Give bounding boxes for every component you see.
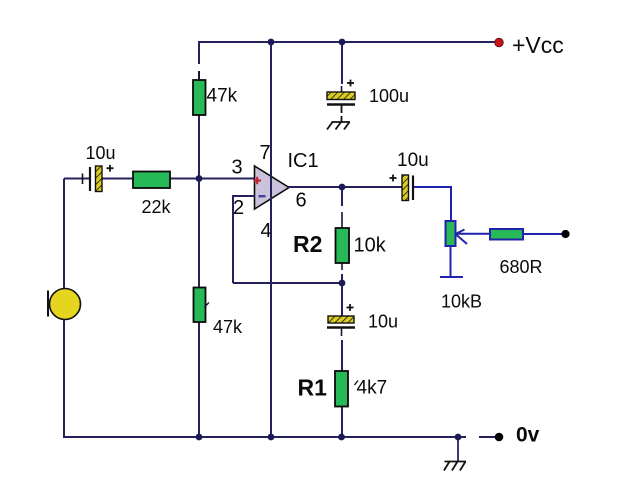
wire op-amp output row [288, 186, 402, 188]
terminal 0v black dot [495, 433, 504, 442]
wire input row left of cap [64, 178, 90, 180]
node junction top rail 100u [339, 39, 346, 46]
svg-text:47k: 47k [207, 86, 238, 107]
svg-text:4: 4 [261, 220, 272, 242]
capacitor C-out plus mark [390, 175, 397, 182]
ground below 100u hatched symbol [327, 122, 350, 130]
capacitor C-in 10u lead tick [82, 174, 84, 185]
wire R2 branch lower lead [341, 263, 343, 270]
microphone front bar [47, 291, 49, 317]
resistor R1 4k7 [335, 371, 348, 407]
op-amp U1 body [255, 166, 290, 209]
wire gap above 47k top [198, 64, 201, 71]
svg-text:680R: 680R [500, 257, 543, 277]
svg-text:10k: 10k [354, 235, 387, 257]
node junction bottom rail 47k [196, 434, 203, 441]
wire top +Vcc rail [199, 41, 496, 43]
capacitor 100u plus mark [347, 80, 354, 87]
svg-text:IC1: IC1 [288, 150, 319, 172]
wire 100u branch from top rail [341, 42, 343, 84]
svg-text:10u: 10u [368, 312, 398, 332]
potentiometer VR1 10kB body [446, 221, 456, 246]
microphone MIC body [50, 289, 81, 320]
wire mic branch vertical x=64 [63, 179, 65, 438]
wire R2 branch upper lead [341, 187, 343, 206]
wire R1 bottom lead [341, 406, 343, 437]
resistor 47k top [193, 80, 206, 115]
wire op-amp power vertical pin7 to pin4 x=271 [270, 41, 272, 437]
resistor R1 label tick [355, 381, 359, 386]
wire bottom 0v rail [63, 436, 466, 438]
terminal output black dot [561, 230, 569, 238]
capacitor 100u lower plate [327, 103, 355, 105]
op-amp plus input mark [254, 177, 262, 184]
resistor R2 10k [336, 228, 350, 263]
svg-text:47k: 47k [213, 317, 243, 337]
svg-text:0v: 0v [516, 424, 540, 447]
ground symbol bottom right [444, 462, 466, 471]
node junction bottom rail R1 [338, 434, 345, 441]
svg-text:7: 7 [260, 142, 271, 164]
svg-text:10kB: 10kB [441, 292, 482, 312]
capacitor 10u (to R1) hatched electrode [328, 316, 354, 323]
ground below 100u stem [341, 106, 343, 114]
svg-text:10u: 10u [397, 150, 429, 171]
wire bottom rail stub to 0v dot [479, 436, 495, 438]
capacitor C-out 10u hatched electrode [402, 175, 409, 201]
capacitor C-in plus mark [107, 165, 114, 172]
svg-text:100u: 100u [369, 86, 409, 106]
capacitor C-out 10u right plate [412, 176, 414, 201]
node junction bottom rail ground [455, 434, 462, 441]
op-amp minus input mark [259, 195, 266, 197]
node junction bottom rail pin4 [268, 434, 275, 441]
wire feedback vertical x=233 [232, 195, 234, 283]
resistor 680R [490, 229, 523, 240]
svg-text:R2: R2 [293, 231, 322, 257]
svg-text:6: 6 [296, 190, 307, 212]
capacitor 10u (to R1) plus mark [347, 304, 354, 311]
capacitor 100u hatched electrode [327, 92, 355, 100]
node junction top rail pin7 [268, 39, 275, 46]
resistor 47k bottom lead tick [205, 303, 210, 308]
capacitor 10u (to R1) lower plate [327, 326, 355, 328]
wire input row cap to op-amp pin3 [102, 178, 254, 180]
svg-text:10u: 10u [86, 143, 116, 163]
resistor 47k top lead [198, 71, 200, 80]
wire cap to R1 lead [341, 328, 343, 336]
wire left bias branch vertical x=199 [198, 41, 200, 437]
wire output cap to pot corner [414, 187, 452, 222]
svg-text:22k: 22k [142, 197, 172, 217]
svg-text:+Vcc: +Vcc [512, 32, 564, 58]
resistor 47k bottom [194, 288, 206, 323]
node junction feedback R2 bottom [339, 280, 346, 287]
svg-text:4k7: 4k7 [357, 378, 388, 399]
node junction output R2 [339, 184, 346, 191]
capacitor C-in 10u hatched electrode [96, 166, 103, 192]
resistor 22k [133, 172, 170, 189]
wire R2 node down to 10u coupling cap [341, 283, 343, 316]
ground bar below pot [440, 276, 463, 278]
svg-text:3: 3 [232, 157, 243, 179]
capacitor C-in 10u left plate [89, 167, 91, 191]
wire 680R to output dot [523, 233, 562, 235]
terminal +Vcc red dot [495, 38, 504, 47]
wire pin2 stub [233, 195, 255, 197]
ground stub on 0v rail [457, 437, 459, 461]
node junction input bias [196, 175, 203, 182]
wire feedback horizontal to R2 bottom node [233, 282, 342, 284]
potentiometer wiper arrow [456, 230, 491, 245]
svg-text:R1: R1 [298, 375, 328, 401]
wire pot bottom lead [450, 246, 452, 277]
svg-text:2: 2 [233, 197, 244, 219]
